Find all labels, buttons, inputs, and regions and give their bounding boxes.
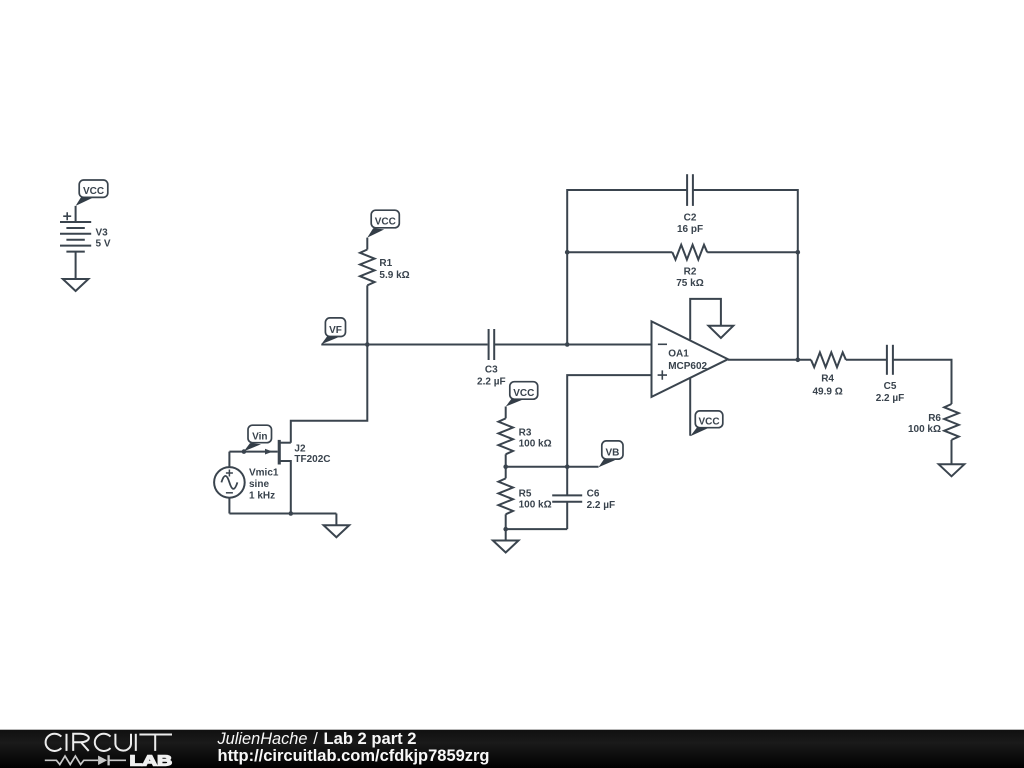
svg-text:2.2 µF: 2.2 µF — [587, 500, 616, 511]
ground (op-amp V- pin) — [709, 326, 734, 338]
ground (R5/C6) — [493, 541, 519, 553]
svg-text:Lab 2 part 2: Lab 2 part 2 — [324, 730, 417, 748]
resistor R5 — [498, 478, 513, 514]
wire R1 bottom to VF node — [366, 285, 368, 344]
wire R5 bottom — [505, 514, 507, 529]
resistor R3 — [498, 418, 513, 454]
svg-text:R6: R6 — [928, 413, 941, 424]
net flag VCC (op-amp V+) — [690, 411, 723, 436]
wire C6 top — [566, 467, 568, 496]
ground (R6) — [939, 464, 965, 476]
net flag VCC (R1) — [367, 210, 399, 237]
wire R2 row right — [707, 251, 798, 253]
wire C5 to R6 column — [893, 360, 952, 404]
svg-text:R5: R5 — [519, 489, 532, 500]
node junction (R5 bottom) — [503, 527, 508, 532]
net flag VCC (R3) — [506, 382, 538, 407]
svg-text:VF: VF — [329, 325, 342, 336]
resistor R4 — [811, 352, 846, 367]
wire VB row — [506, 466, 599, 468]
svg-text:C6: C6 — [587, 489, 600, 500]
resistor R6 — [944, 404, 959, 440]
node junction (R2 left) — [565, 250, 570, 255]
svg-text:VCC: VCC — [513, 388, 534, 399]
svg-text:2.2 µF: 2.2 µF — [477, 376, 506, 387]
wire op-amp V- pin up — [690, 299, 721, 340]
wire VCC to R3 top — [505, 407, 507, 419]
svg-text:R1: R1 — [379, 258, 392, 269]
svg-text:TF202C: TF202C — [294, 454, 330, 465]
svg-text:5 V: 5 V — [96, 239, 111, 250]
node junction (R2 right) — [796, 250, 801, 255]
svg-text:5.9 kΩ: 5.9 kΩ — [379, 270, 409, 281]
wire op-amp output — [728, 359, 811, 361]
svg-text:2.2 µF: 2.2 µF — [876, 393, 905, 404]
wire R3-R5 junction verticals — [505, 467, 507, 479]
voltage source V3 battery — [60, 206, 91, 279]
svg-text:J2: J2 — [294, 443, 306, 454]
wire op-amp plus input — [567, 375, 651, 467]
svg-text:100 kΩ: 100 kΩ — [519, 500, 552, 511]
node junction (feedback tap on minus input) — [565, 342, 570, 347]
wire bottom row R5/C6 — [506, 528, 568, 530]
wire to ground (J2) — [335, 514, 337, 526]
node junction (plus input column) — [565, 464, 570, 469]
capacitor C5 — [887, 345, 893, 375]
svg-text:100 kΩ: 100 kΩ — [908, 424, 941, 435]
svg-text:/: / — [313, 730, 318, 748]
svg-text:C5: C5 — [884, 381, 897, 392]
net flag VF — [321, 318, 345, 344]
svg-text:VCC: VCC — [698, 417, 719, 428]
footer bar — [0, 730, 1024, 768]
node junction (output/feedback) — [796, 358, 801, 363]
wire R3 bottom to VB row — [505, 454, 507, 466]
svg-text:C3: C3 — [485, 365, 498, 376]
wire op-amp V+ pin down — [689, 378, 691, 435]
node junction (J2 source / Vmic1 return) — [289, 511, 294, 516]
node VF junction — [365, 342, 370, 347]
node junction (R3/R5) — [503, 464, 508, 469]
svg-text:Vmic1: Vmic1 — [249, 468, 279, 479]
resistor R2 — [672, 245, 707, 260]
svg-text:1 kHz: 1 kHz — [249, 490, 275, 501]
wire C2 to feedback right vertical — [693, 190, 798, 360]
svg-text:C2: C2 — [684, 213, 697, 224]
wire C6 bottom — [566, 502, 568, 529]
wire C3 right plate to op-amp minus input — [494, 344, 651, 346]
wire R4 to C5 — [846, 359, 887, 361]
svg-text:75 kΩ: 75 kΩ — [676, 278, 703, 289]
svg-text:V3: V3 — [96, 228, 109, 239]
wire Vmic1 bottom to ground branch — [229, 513, 336, 515]
capacitor C2 — [687, 174, 693, 206]
svg-text:R4: R4 — [821, 373, 834, 384]
capacitor C3 — [489, 329, 495, 360]
net flag Vin — [244, 425, 272, 451]
svg-text:49.9 Ω: 49.9 Ω — [812, 386, 842, 397]
CircuitLab logo squiggle (resistor + diode) — [45, 755, 126, 765]
net flag VCC (V3) — [76, 180, 108, 206]
resistor R1 — [360, 250, 375, 286]
svg-text:R2: R2 — [684, 266, 697, 277]
CircuitLab logo text CIRCUIT (drawn) — [46, 734, 172, 751]
svg-text:VCC: VCC — [83, 186, 104, 197]
svg-text:100 kΩ: 100 kΩ — [519, 439, 552, 450]
net flag VB — [599, 441, 624, 467]
transistor J2 (JFET) — [229, 440, 290, 514]
svg-text:http://circuitlab.com/cfdkjp78: http://circuitlab.com/cfdkjp7859zrg — [218, 747, 490, 765]
wire VCC flag to R1 top — [366, 238, 368, 250]
wire VF to C3 left plate — [321, 344, 487, 346]
wire to ground (R5) — [505, 529, 507, 540]
wire R2 row left — [567, 251, 672, 253]
node Vin junction — [242, 449, 247, 454]
svg-text:R3: R3 — [519, 428, 532, 439]
op-amp OA1 — [652, 321, 729, 397]
svg-text:VCC: VCC — [375, 217, 396, 228]
svg-text:16 pF: 16 pF — [677, 224, 703, 235]
svg-text:LAB: LAB — [130, 752, 173, 768]
wire VF node down to J2 drain — [291, 345, 368, 443]
wire R6 bottom to ground — [951, 440, 953, 464]
svg-text:JulienHache: JulienHache — [217, 730, 308, 748]
capacitor C6 — [552, 495, 582, 501]
svg-text:Vin: Vin — [252, 431, 267, 442]
svg-text:MCP602: MCP602 — [668, 361, 707, 372]
ground (below V3) — [63, 279, 89, 291]
svg-text:OA1: OA1 — [668, 349, 689, 360]
ground (J2/Vmic1) — [324, 525, 350, 537]
svg-text:sine: sine — [249, 479, 269, 490]
voltage source Vmic1 — [214, 452, 245, 514]
wire feedback left vertical — [567, 190, 687, 345]
svg-text:VB: VB — [605, 447, 619, 458]
